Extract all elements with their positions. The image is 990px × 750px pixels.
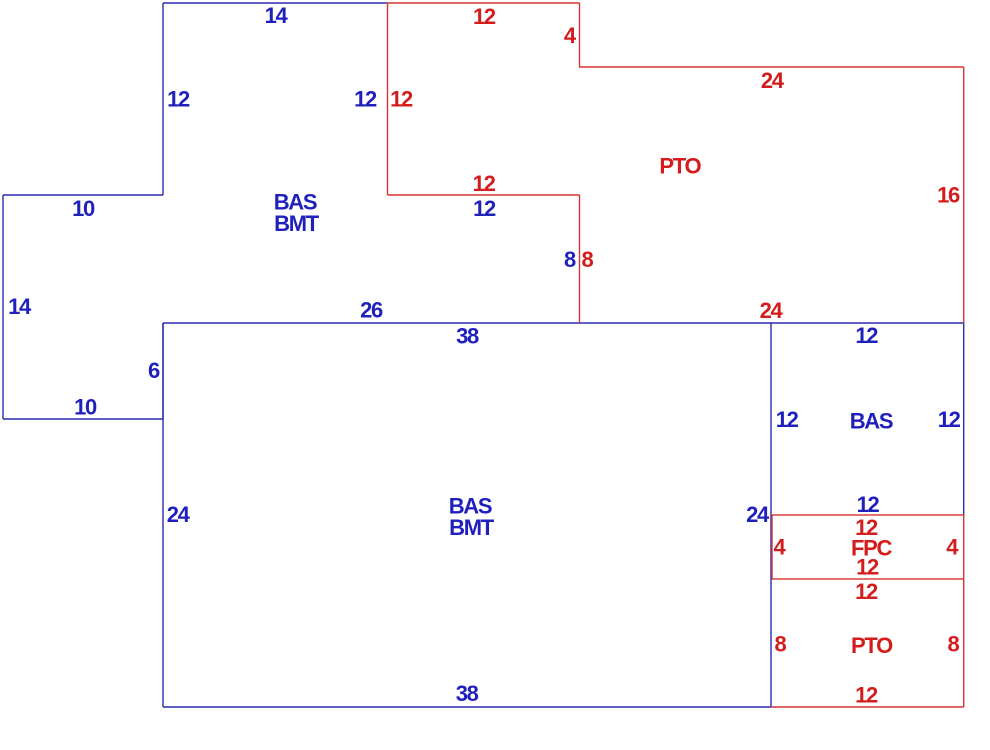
svg-text:14: 14: [8, 294, 32, 319]
wall: horizontal mid edge y=323 (26 ft / 38 ft / 12 ft): [163, 322, 964, 324]
room: FPC rectangle (red): [772, 515, 964, 579]
svg-text:14: 14: [265, 3, 289, 28]
wall: lower PTO bottom edge (12 ft, red): [771, 706, 964, 708]
svg-text:24: 24: [760, 298, 784, 323]
svg-text:4: 4: [946, 535, 959, 560]
svg-text:8: 8: [564, 247, 576, 272]
svg-text:PTO: PTO: [851, 633, 893, 658]
svg-text:12: 12: [855, 683, 878, 708]
wall: PTO top edge right part (24 ft, red): [579, 66, 964, 68]
svg-text:8: 8: [948, 632, 960, 657]
svg-text:8: 8: [582, 247, 594, 272]
svg-text:24: 24: [746, 502, 770, 527]
svg-text:12: 12: [167, 87, 190, 112]
wall: left bump right edge (6 ft): [162, 323, 164, 419]
svg-text:10: 10: [72, 196, 95, 221]
svg-text:BAS: BAS: [850, 409, 893, 434]
svg-text:4: 4: [564, 23, 577, 48]
svg-text:4: 4: [774, 535, 787, 560]
wall: PTO/BMT boundary vertical (12 ft, red): [387, 3, 389, 195]
svg-text:24: 24: [761, 68, 785, 93]
wall: PTO top edge left part (12 ft, red): [387, 2, 580, 4]
wall: BAS room right edge (12 ft): [963, 323, 965, 515]
svg-text:26: 26: [360, 298, 383, 323]
svg-text:12: 12: [857, 492, 880, 517]
svg-text:24: 24: [167, 502, 191, 527]
svg-text:6: 6: [148, 358, 160, 383]
wall: PTO/BMT boundary vertical lower (8 ft, red): [579, 195, 581, 323]
svg-text:12: 12: [473, 171, 496, 196]
svg-text:12: 12: [473, 4, 496, 29]
wall: lower PTO right edge (8 ft, red): [963, 579, 965, 707]
svg-text:12: 12: [354, 87, 377, 112]
svg-text:8: 8: [775, 632, 787, 657]
wall: upper BAS/BMT left edge (12 ft): [162, 3, 164, 195]
svg-text:12: 12: [390, 87, 413, 112]
svg-text:16: 16: [937, 183, 960, 208]
svg-text:12: 12: [473, 196, 496, 221]
svg-text:PTO: PTO: [659, 154, 701, 179]
wall: left bump top edge (10 ft): [3, 194, 163, 196]
wall: PTO step edge (4 ft, red): [579, 3, 581, 67]
svg-text:12: 12: [856, 555, 879, 580]
svg-text:12: 12: [938, 407, 961, 432]
wall: big BAS/BMT rect left edge (24 ft): [162, 323, 164, 707]
wall: big BAS/BMT rect right edge (24 ft): [770, 323, 772, 707]
svg-text:12: 12: [855, 323, 878, 348]
svg-text:38: 38: [456, 324, 479, 349]
wall: left bump left edge (14 ft): [2, 195, 4, 419]
svg-text:BMT: BMT: [449, 515, 495, 540]
wall: big BAS/BMT rect bottom edge (38 ft): [163, 706, 771, 708]
wall: PTO/BMT boundary horizontal (12 ft, red): [388, 194, 580, 196]
wall: upper BAS/BMT top edge (14 ft): [163, 2, 387, 4]
svg-text:12: 12: [855, 579, 878, 604]
wall: left bump bottom edge (10 ft): [3, 418, 163, 420]
svg-text:38: 38: [456, 681, 479, 706]
svg-text:12: 12: [776, 407, 799, 432]
svg-text:BMT: BMT: [274, 211, 320, 236]
wall: PTO right edge (16 ft, red): [963, 67, 965, 323]
svg-text:10: 10: [74, 395, 97, 420]
